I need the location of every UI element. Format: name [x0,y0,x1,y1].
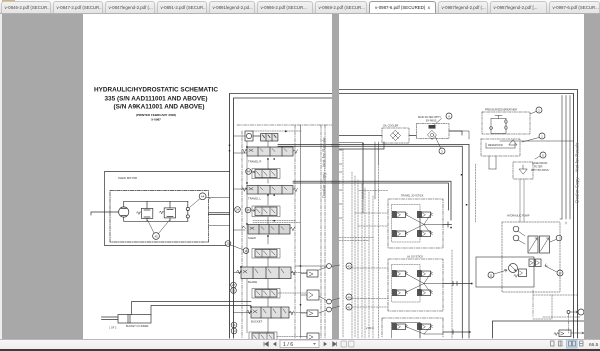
blade valve [237,267,296,279]
divider crossing wires [331,14,340,339]
relief valve V12 [137,201,153,221]
svg-text:11: 11 [489,273,492,277]
junction dots p2 [362,143,472,332]
wire motor manifold [91,201,188,221]
callout 45b [319,264,331,270]
tj out wire [443,222,452,227]
check valve block [245,131,261,141]
charge relief [514,269,527,278]
svg-text:2 OF 8: 2 OF 8 [366,327,374,330]
reservoir drain [489,156,496,169]
page navigation controls [260,339,360,349]
svg-text:5: 5 [542,153,544,157]
svg-text:HYDRAULIC/HYDROSTATIC SCHEMATI: HYDRAULIC/HYDROSTATIC SCHEMATIC [94,87,218,94]
slew valve [242,225,294,235]
supply pair outer [339,144,469,338]
cooler drop lines [375,142,379,199]
gauge circle 30 [567,309,584,315]
svg-text:335 (S/N AAD111001 AND ABOVE): 335 (S/N AAD111001 AND ABOVE) [105,96,208,103]
wire cylinder to bucket valve [132,302,251,315]
reservoir vent check [509,140,517,145]
svg-text:43: 43 [347,264,351,268]
callout 11 [488,270,507,279]
bank left link wire [246,141,248,333]
callout 41 [319,307,331,313]
svg-text:HYDRAULIC PUMP: HYDRAULIC PUMP [507,215,530,218]
callout 16b [231,288,237,294]
slew motor M1 [119,207,129,217]
svg-text:4: 4 [448,114,450,118]
travel L valve [242,186,298,195]
svg-text:16: 16 [246,208,250,212]
rh out wire [443,330,470,334]
tj solenoid valve 2 [417,211,433,218]
svg-text:BUCKET: BUCKET [251,320,263,324]
callout 16c [231,245,249,254]
dashed box lower right [533,295,578,319]
lh solenoid valve 3 [392,289,408,296]
dash-dot section line edge A [320,125,322,338]
callout 43 [346,263,352,269]
svg-text:2: 2 [538,108,540,112]
lh inner dashed box [392,265,421,303]
svg-text:SLEW: SLEW [248,236,256,240]
junction dot [285,131,287,133]
callout 40 [346,294,352,300]
svg-text:21: 21 [232,323,236,327]
svg-text:27: 27 [232,283,236,287]
svg-text:SLEW MOTOR: SLEW MOTOR [118,176,137,180]
svg-text:X-0987: X-0987 [151,118,161,122]
wire bus mid right pair [293,181,332,183]
pilot pair outer [339,181,451,220]
callout 24 [235,207,241,213]
relief valve lower right [554,330,584,337]
check valve CV4 [301,310,318,317]
case drain filter label [531,162,549,172]
case drain risers [520,179,524,222]
tj solenoid valve 1 [392,211,408,218]
title block [94,87,218,122]
svg-text:1 / 6: 1 / 6 [283,342,293,348]
reservoir [481,139,520,156]
orifice ports [186,201,189,221]
tab bar [0,0,600,14]
dash-dot section line right A [294,125,296,338]
frame border inner [234,98,333,338]
dashed case riser [475,164,477,222]
bucket cylinder [102,315,152,324]
rh joystick box partial [382,318,443,338]
travel R pilot group [252,169,280,179]
svg-text:1: 1 [541,134,543,138]
svg-text:TRAVEL L: TRAVEL L [248,197,261,201]
svg-text:1 OF 2: 1 OF 2 [109,327,117,330]
svg-text:RESERVOIR: RESERVOIR [488,144,503,147]
dashed riser 1 [342,149,344,338]
tj cross wires [406,215,444,234]
rh solenoid valve 1 [392,323,408,330]
dash-dot drop B [532,290,534,317]
drain dashed riser [451,250,453,338]
svg-text:Dealer Copy -- Not for Resale: Dealer Copy -- Not for Resale [575,142,580,203]
blade pilot group [252,289,280,299]
dashed riser bundle [352,172,373,338]
return elbow [560,219,566,224]
thin feed wire [339,143,363,199]
svg-text:WITH BY-PASS: WITH BY-PASS [531,169,549,172]
callout 27 [231,282,237,288]
return bus risers [562,96,570,220]
tank line bottom [493,321,585,338]
svg-text:24: 24 [236,208,240,212]
gerotor pump 1 [528,236,538,253]
callout 10 [550,235,562,242]
junction dots [229,145,301,308]
callout circle 44a [190,193,212,208]
wire cooler feed [339,131,462,136]
callout 21a [225,241,231,247]
svg-text:40: 40 [347,295,351,299]
svg-text:16: 16 [232,289,236,293]
callout 40 [319,296,331,304]
view mode icons [545,339,600,349]
valve bank section box top [237,124,332,126]
check valve CV5 [301,333,319,340]
svg-text:LH JOYSTICK: LH JOYSTICK [407,256,423,259]
pressurized breather [482,112,530,134]
slew pilot group [252,249,280,259]
lh solenoid valve 1 [392,270,408,277]
main filter label [418,116,441,123]
rh cross wires [392,323,444,339]
svg-text:3: 3 [441,149,443,153]
wire reservoir link [339,142,384,149]
lh solenoid valve 2 [417,270,433,277]
frame border outer [230,94,333,339]
supply pair inner [339,146,462,338]
svg-text:(S/N A9KA11001 AND ABOVE): (S/N A9KA11001 AND ABOVE) [114,104,205,111]
gerotor pump 2 [540,236,550,253]
callout 41 [346,304,352,310]
wire bus top right pair [278,144,332,146]
dash-dot drop A [568,314,570,333]
callout 5 [535,152,546,159]
check valve CV3 [301,290,319,300]
solid riser [362,144,364,213]
svg-text:TRAVEL JOYSTICK: TRAVEL JOYSTICK [401,195,424,198]
lh out wire [443,282,472,286]
wire slew pilot [206,198,230,226]
dash-dot section line edge B [324,125,326,338]
charge pump [509,264,518,273]
dashed branch stubs [339,213,388,307]
bottom toolbar [0,339,600,349]
lh joystick box [388,259,443,311]
callout 9a [513,226,525,236]
aux spool valve [261,134,278,141]
pilot dash cross lines [253,221,301,223]
tj solenoid valve 3 [392,230,408,237]
frame border inner [339,94,574,339]
pilot dash wires right [277,273,307,337]
tj solenoid valve 4 [417,230,433,237]
travel R valve [242,147,298,156]
lh solenoid valve 4 [417,289,433,296]
dash-dot section line left [241,131,243,338]
callout 2 [530,107,542,114]
wire to callout 45b [295,265,327,267]
callout 4 [446,113,452,119]
lh cross wires [406,274,444,293]
callout 3 [435,136,445,154]
thick line slew to bus [209,213,230,215]
travel L pilot group [252,206,280,217]
port ticks left edge [339,150,342,218]
callout 16a [245,207,255,213]
svg-text:TRAVEL R: TRAVEL R [248,160,261,164]
main filter [416,119,449,140]
svg-text:BUCKET CYLINDER: BUCKET CYLINDER [126,325,149,328]
slew dash-dot box [110,191,209,243]
callout 9b [513,235,525,244]
pilot pair inner [339,183,449,210]
callout 17 [545,264,563,276]
svg-text:OIL COOLER: OIL COOLER [383,125,398,128]
callout 14 [231,328,237,334]
travel joystick box [388,199,443,248]
callout 44b [246,169,255,175]
wire filter out [450,131,574,141]
svg-text:66.5: 66.5 [589,342,599,348]
svg-text:17: 17 [558,271,562,275]
hydraulic pump box [502,222,560,292]
pilot dashed line top [253,130,301,132]
rh solenoid valve 2 [417,323,433,330]
svg-text:41: 41 [347,305,351,309]
svg-text:PRESSURIZED BREATHER: PRESSURIZED BREATHER [485,109,517,112]
relief valve V13 [159,201,175,221]
svg-text:(PRINTED FEBRUARY 2008): (PRINTED FEBRUARY 2008) [136,113,176,117]
frame border outer [339,90,578,339]
svg-text:Dealer Copy -- Not for Resale: Dealer Copy -- Not for Resale [322,137,327,198]
case drain filter [513,162,533,179]
tj inner dashed box [392,205,421,243]
callout circle 45 [148,220,171,240]
pilot rail line [300,125,302,338]
svg-text:44: 44 [201,195,205,199]
svg-text:BY-PASS: BY-PASS [426,120,437,123]
svg-text:BLADE: BLADE [248,280,257,284]
callout 1 [522,133,545,142]
slew circuit enclosure [105,172,230,246]
bank center wire [267,141,269,333]
svg-text:21: 21 [226,242,230,246]
pressure dash line [543,316,580,318]
svg-text:45: 45 [154,234,158,238]
check valve CV2 [301,270,318,277]
charge pump housing [476,257,534,287]
svg-text:16: 16 [244,249,248,253]
pump top rects [529,259,541,267]
svg-text:44: 44 [247,170,251,174]
callout 21 [231,322,237,328]
bucket pilot group [249,332,277,342]
svg-text:14: 14 [232,329,236,333]
bucket valve [247,307,294,318]
oil cooler [382,128,409,143]
